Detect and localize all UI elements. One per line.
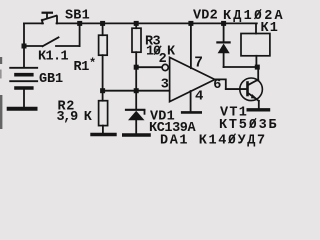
transistor VT1 circle [240,78,263,101]
diode VD2 cathode bar [217,41,229,43]
wire VD2 to collector node [224,66,258,68]
zener hook VD1 [144,110,146,114]
wire pin3 net [103,90,170,92]
wire K1.1 riser [79,23,81,46]
svg-text:6: 6 [213,78,221,93]
ground bar VT1 [248,108,268,111]
resistor R3 [132,28,141,52]
transistor VT1 base bar [246,83,249,96]
wire top rail left segment [24,22,43,24]
wire VD1 top [135,91,137,109]
wire R1 bottom [102,55,104,90]
junction R3 pin2 [134,65,139,70]
scan artifact left edge 3 [0,95,2,129]
svg-text:2: 2 [159,52,167,67]
zener diode VD1 cathode bar [126,109,144,111]
wire pin6 output [215,79,247,89]
wire VD1 bottom [135,120,137,133]
svg-text:3,9 К: 3,9 К [57,110,93,125]
battery GB1 [10,46,37,107]
ground bar GB1 [9,107,36,111]
svg-text:DA1 К140УД7: DA1 К140УД7 [160,133,267,148]
svg-text:*: * [89,57,96,71]
zener diode VD1 triangle [128,111,145,120]
svg-text:VD2: VD2 [193,9,218,24]
wire pin4 [190,91,192,111]
slashed zero in KD102A [255,9,262,19]
wire K1.1 right [56,45,80,47]
relay coil K1 [241,34,270,56]
resistor R1 [99,35,108,55]
wire R1 top riser [102,23,104,35]
scan artifact left edge 2 [0,70,2,79]
junction K1.1 left rail [22,44,27,49]
wire R3 to pin3 net [135,67,137,91]
wire relay drop [255,23,257,33]
svg-text:SB1: SB1 [65,9,90,24]
wire R3 top riser [135,23,137,28]
svg-text:3: 3 [161,77,169,92]
slashed zero in R3 value [154,46,161,55]
slashed zero in K140UD7 [229,134,236,144]
transistor VT1 collector diagonal [249,80,258,85]
ground bar pin4 [182,111,201,114]
resistor R2 [99,101,108,126]
svg-text:GB1: GB1 [39,72,63,87]
ground bar R2 [92,133,115,136]
wire relay bottom [255,56,257,67]
svg-text:КТ503Б: КТ503Б [219,118,278,133]
junction VD1 pin3 [134,88,139,93]
svg-text:7: 7 [194,56,203,72]
ground bar VD1 [124,133,149,137]
slashed zero in KT503B [250,118,257,127]
wire top rail main segment [57,22,257,24]
junction collector node [255,65,260,70]
switch SB1 [42,13,57,24]
wire R3 bottom [135,52,137,67]
junction R1 R2 pin3 [100,88,105,93]
wire left rail upper [23,23,25,46]
inverting input bubble pin2 [162,64,168,70]
wire pin2 net [136,66,162,68]
wire VD2 bottom [223,53,225,67]
wire K1.1 left [24,45,43,47]
wire VD2 top [223,23,225,41]
wire pin7 [190,23,192,68]
relay contact K1.1 [43,37,59,46]
transistor VT1 emitter diagonal [249,94,259,101]
op-amp DA1 [170,57,215,101]
svg-text:К1: К1 [261,21,280,36]
junction rail VD2 [221,21,226,26]
junction rail R1 [100,21,105,26]
junction rail R3 [134,21,139,26]
scan artifact left edge 1 [0,57,2,64]
wire base [226,88,247,90]
wire emitter [258,101,260,108]
wire R2 bottom [102,126,104,133]
diode VD2 triangle [218,44,230,54]
svg-text:4: 4 [195,89,203,105]
wire collector [257,67,259,80]
wire R2 top [102,91,104,101]
transistor VT1 emitter arrow [251,94,257,99]
junction rail K1.1 [77,21,82,26]
svg-text:К1.1: К1.1 [38,50,69,65]
junction rail pin7 [188,21,193,26]
svg-text:R1: R1 [74,60,90,75]
